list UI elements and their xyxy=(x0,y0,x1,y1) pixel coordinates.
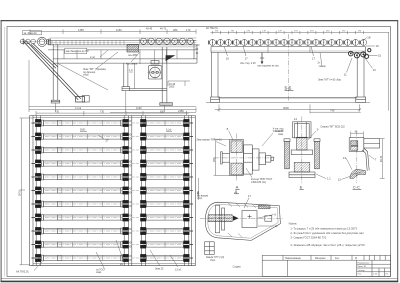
detail C right dim xyxy=(380,139,385,179)
svg-text:Б: Б xyxy=(300,185,303,190)
svg-text:12: 12 xyxy=(338,178,342,182)
plan view boundary rails xyxy=(30,116,196,266)
svg-text:1150: 1150 xyxy=(116,28,122,32)
svg-text:зв. Знак-2А: зв. Знак-2А xyxy=(24,32,37,35)
svg-text:как Защелка до ПР: как Защелка до ПР xyxy=(66,49,89,53)
B-B top rail band xyxy=(211,47,366,53)
detail D middle box xyxy=(242,211,257,228)
roller row 11 (plan) xyxy=(31,254,193,262)
B-B centerline xyxy=(288,34,290,101)
roller leaders + labels 16/17 xyxy=(224,46,322,66)
detail D centerline xyxy=(200,217,283,219)
svg-text:19: 19 xyxy=(376,44,380,48)
rail label box xyxy=(65,48,87,53)
svg-text:16: 16 xyxy=(226,56,230,60)
svg-text:650: 650 xyxy=(160,110,165,113)
svg-text:170: 170 xyxy=(196,44,201,47)
roller row 2 (plan) xyxy=(31,133,193,141)
svg-text:2970: 2970 xyxy=(18,190,22,196)
svg-text:Notes:: Notes: xyxy=(289,221,298,225)
svg-text:17: 17 xyxy=(312,56,316,60)
svg-text:46-73: 46-73 xyxy=(160,28,167,31)
svg-text:18: 18 xyxy=(367,35,371,39)
svg-text:М: М xyxy=(355,258,357,260)
anchor bolt symbol xyxy=(261,53,263,62)
svg-text:3- Сварка ГОСТ 5264-80 ТУ1: 3- Сварка ГОСТ 5264-80 ТУ1 xyxy=(290,235,327,239)
detail A flange stack xyxy=(244,145,260,174)
svg-text:730: 730 xyxy=(100,110,105,113)
svg-text:27: 27 xyxy=(106,139,110,143)
svg-text:40-45: 40-45 xyxy=(146,28,153,31)
plan top dimension line xyxy=(36,111,189,116)
svg-text:1(л): 1(л) xyxy=(166,128,171,132)
hatched mount block xyxy=(127,44,139,52)
left apex extension xyxy=(28,60,30,107)
svg-text:Пров. М: Пров. М xyxy=(357,266,365,268)
svg-text:2005: 2005 xyxy=(169,86,175,89)
detail C top assembly xyxy=(349,138,379,152)
svg-text:13: 13 xyxy=(373,68,377,72)
diagonal leader to mid xyxy=(58,64,108,91)
notes block xyxy=(289,221,366,247)
roller row 8 (plan) xyxy=(31,214,193,222)
svg-text:170: 170 xyxy=(186,28,191,32)
detail D outline xyxy=(205,202,280,240)
svg-text:сбор.: сбор. xyxy=(197,198,203,200)
detail A left dim xyxy=(214,140,230,176)
roller row 9 (plan) xyxy=(31,227,193,235)
drive end leaders xyxy=(347,38,378,73)
plan inner cross lines xyxy=(33,118,195,264)
svg-text:самор.: самор. xyxy=(319,65,327,68)
ground line xyxy=(206,101,370,103)
detail C centerline xyxy=(356,132,358,184)
svg-text:11: 11 xyxy=(344,73,347,77)
svg-text:Ø76: Ø76 xyxy=(213,157,216,162)
detail B mid band xyxy=(291,150,312,155)
detail C bottom clamp xyxy=(350,169,366,178)
right leg xyxy=(160,47,173,105)
svg-text:2- Зо резьб болт удлинения обе: 2- Зо резьб болт удлинения обе отметки б… xyxy=(290,231,364,235)
roller ticks on rail xyxy=(52,40,124,45)
svg-text:Разработал: Разработал xyxy=(357,262,370,264)
svg-text:Кол.: Кол. xyxy=(335,258,340,260)
svg-text:Т.контр: Т.контр xyxy=(357,270,365,272)
left leg xyxy=(51,44,60,103)
right dim cluster xyxy=(168,81,190,86)
diagonal foot box xyxy=(82,96,89,102)
svg-text:Смазка "МТ" БСБ-132: Смазка "МТ" БСБ-132 xyxy=(320,125,345,128)
label box (top-left) xyxy=(23,31,42,35)
left sprocket cluster xyxy=(20,37,51,46)
svg-text:280: 280 xyxy=(173,28,178,32)
B-B bottom dimension xyxy=(215,104,361,113)
svg-text:65-70: 65-70 xyxy=(380,155,383,162)
title block texts xyxy=(285,258,389,276)
gusset plate xyxy=(166,55,176,61)
margin line left xyxy=(4,27,6,277)
detail B upper hatch xyxy=(297,137,307,150)
second rail band xyxy=(48,47,197,50)
B-B roller row xyxy=(208,39,366,45)
right section tie verticals xyxy=(140,50,177,64)
svg-text:свар.: свар. xyxy=(96,271,102,274)
detail circle (flange) xyxy=(148,61,163,80)
svg-text:Д: Д xyxy=(234,189,237,194)
detail A centerlines xyxy=(214,157,275,159)
svg-text:обе стор. d 25: обе стор. d 25 xyxy=(240,62,256,65)
svg-text:в установ: в установ xyxy=(126,62,138,65)
detail D small pad xyxy=(265,216,272,221)
top rail (roller rail) xyxy=(48,38,197,45)
svg-text:Материал: Материал xyxy=(315,258,326,260)
detail D bolt xyxy=(208,215,232,222)
roller row 1 (plan) xyxy=(31,119,193,127)
svg-text:Создал: Создал xyxy=(233,266,242,269)
detail B base xyxy=(289,172,315,178)
roller row 7 (plan) xyxy=(31,200,193,208)
svg-text:Знак "МТ" h=10 сбор.: Знак "МТ" h=10 сбор. xyxy=(318,79,342,82)
svg-text:4 отв: 4 отв xyxy=(75,106,82,110)
roller row 5 (plan) xyxy=(31,173,193,181)
drive unit box xyxy=(148,66,161,79)
band tie verticals xyxy=(64,50,101,59)
outer margin line bottom xyxy=(1,278,398,280)
bottom tie beam xyxy=(218,96,357,99)
roller row 4 (plan) xyxy=(31,160,193,168)
side view ground line xyxy=(29,106,196,108)
detail D top hatch strip xyxy=(259,205,270,209)
side view bottom dimension xyxy=(29,91,196,113)
inner frame ticks near B-B xyxy=(268,47,310,53)
detail C top dim xyxy=(351,131,364,137)
svg-text:ось Ø34: ось Ø34 xyxy=(128,54,138,57)
svg-text:свар.: свар. xyxy=(278,133,284,136)
detail B right bolt xyxy=(314,139,320,169)
detail D vertical plate xyxy=(215,205,224,233)
svg-text:1455: 1455 xyxy=(78,28,84,32)
svg-text:С-С: С-С xyxy=(353,185,360,190)
svg-text:при подъеме не исп.: при подъеме не исп. xyxy=(258,66,280,68)
svg-text:5(б): 5(б) xyxy=(80,128,85,132)
lower beam xyxy=(122,89,167,91)
detail A shaft end xyxy=(259,153,274,165)
leader lines xyxy=(96,50,140,69)
detail C bent bracket xyxy=(362,148,369,171)
side view top dimension line xyxy=(30,29,196,34)
title block xyxy=(262,255,390,276)
svg-text:1- То радиус 7 и 25 обе поверх: 1- То радиус 7 и 25 обе поверхности вала… xyxy=(290,227,357,231)
detail B top box xyxy=(293,122,311,138)
roller row 3 (plan) xyxy=(31,146,193,154)
svg-text:13 об.: 13 об. xyxy=(175,269,182,272)
svg-text:14: 14 xyxy=(294,117,298,121)
plan left vertical dimension 420 xyxy=(20,118,34,265)
svg-text:740: 740 xyxy=(330,109,335,113)
svg-text:13943-86 (2х): 13943-86 (2х) xyxy=(251,181,266,184)
svg-text:Знак смазки "МТ" h=10: Знак смазки "МТ" h=10 xyxy=(196,139,222,142)
right roller group xyxy=(140,38,194,44)
diagonal hatch marks on D rim xyxy=(228,203,256,237)
svg-text:сбор.: сбор. xyxy=(210,260,216,262)
svg-text:17: 17 xyxy=(248,194,252,198)
svg-text:730: 730 xyxy=(55,110,60,113)
svg-text:АК ТМ2.01: АК ТМ2.01 xyxy=(206,27,218,30)
svg-text:Утв.: Утв. xyxy=(357,274,362,276)
roller row 10 (plan) xyxy=(31,241,193,249)
svg-text:Б-Б: Б-Б xyxy=(285,85,292,90)
svg-text:2 шт: 2 шт xyxy=(90,56,96,59)
svg-text:1 С: 1 С xyxy=(129,69,133,72)
svg-text:4- Элементы 2Б образца: Чек и: 4- Элементы 2Б образца: Чек и болт у25-х… xyxy=(290,243,365,247)
detail A body xyxy=(221,140,244,176)
roller row 6 (plan) xyxy=(31,187,193,195)
drive end cluster xyxy=(349,49,371,59)
svg-text:3000: 3000 xyxy=(283,106,289,110)
bottom-left mini detail xyxy=(205,242,215,255)
svg-text:1130: 1130 xyxy=(136,106,142,110)
svg-text:15: 15 xyxy=(378,54,382,58)
svg-text:1.2: 1.2 xyxy=(327,177,331,181)
detail B left bolt xyxy=(284,139,290,169)
sheet top edge xyxy=(1,20,399,22)
short diagonal brace xyxy=(31,44,58,69)
svg-text:17: 17 xyxy=(245,56,249,60)
plan leader lines bottom xyxy=(34,240,178,271)
sheet left edge xyxy=(0,21,2,282)
mid post xyxy=(122,63,130,91)
svg-text:12: 12 xyxy=(274,224,278,228)
svg-text:Знак 25: Знак 25 xyxy=(155,268,164,271)
sheet bottom edge xyxy=(1,280,399,282)
right dim extension vertical xyxy=(388,32,390,110)
B-B right leg xyxy=(356,53,366,103)
main diagonal brace xyxy=(23,39,84,103)
svg-text:2480: 2480 xyxy=(178,109,184,113)
detail B lower hatch xyxy=(294,162,310,172)
svg-text:13: 13 xyxy=(343,156,347,160)
detail B centerline xyxy=(301,117,303,185)
svg-text:АК ТМ2.01: АК ТМ2.01 xyxy=(16,270,29,274)
B-B top dimension line xyxy=(211,31,390,34)
sheet right edge xyxy=(397,21,399,282)
svg-text:Наименование: Наименование xyxy=(285,258,302,260)
B-B left leg xyxy=(211,53,220,103)
lower chord xyxy=(53,40,197,63)
detail D leaders xyxy=(244,198,274,226)
long extension vertical xyxy=(133,63,135,89)
svg-text:сбор.: сбор. xyxy=(83,74,89,77)
